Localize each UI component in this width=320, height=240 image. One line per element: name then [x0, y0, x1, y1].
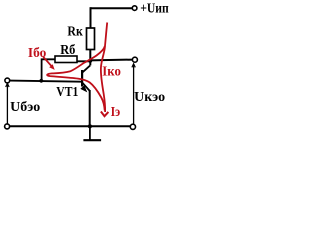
- wire Rb left riser: [42, 59, 55, 81]
- ground bar: [83, 139, 101, 141]
- wire top supply horizontal: [91, 7, 133, 9]
- arrow Ie head red: [101, 112, 109, 117]
- svg-text:Uбэо: Uбэо: [10, 100, 40, 115]
- svg-text:Rк: Rк: [67, 25, 82, 40]
- svg-text:Iбо: Iбо: [28, 46, 46, 61]
- resistor Rk: [87, 28, 95, 50]
- terminal +Uip circle: [132, 6, 137, 11]
- arrow Ubeo voltage: [6, 84, 8, 124]
- wire base from left terminal: [10, 81, 82, 82]
- wire Rb right to collector node: [77, 60, 90, 62]
- wire bottom rail: [10, 125, 130, 127]
- wire Rk bottom to collector: [89, 50, 91, 66]
- svg-text:Uкэо: Uкэо: [134, 90, 165, 105]
- resistor Rb: [55, 56, 77, 63]
- arrow Ibo current red: [43, 57, 51, 66]
- arrow Ukeo voltage: [133, 64, 135, 124]
- terminal collector output circle: [132, 57, 137, 62]
- wire emitter down: [89, 90, 91, 126]
- transistor collector lead: [83, 65, 91, 72]
- node collector junction dot: [88, 59, 92, 63]
- terminal output bottom circle: [130, 124, 135, 129]
- svg-text:Rб: Rб: [60, 43, 75, 58]
- curve Iko current path red: [101, 23, 107, 113]
- svg-text:VT1: VT1: [56, 85, 78, 100]
- svg-text:Iко: Iко: [102, 64, 121, 79]
- terminal input bottom circle: [5, 124, 10, 129]
- ground stem: [89, 127, 91, 140]
- wire top-left corner down to Rk: [90, 7, 92, 28]
- node emitter junction dot: [88, 124, 92, 128]
- wire collector node to right terminal: [90, 59, 133, 62]
- terminal input top circle: [5, 78, 10, 83]
- transistor emitter lead: [83, 83, 90, 91]
- transistor VT1 base bar: [81, 70, 83, 87]
- svg-text:+Uип: +Uип: [140, 2, 169, 17]
- transistor emitter arrowhead: [80, 85, 87, 92]
- svg-text:Iэ: Iэ: [111, 105, 121, 120]
- curve base loop current path red: [47, 46, 105, 111]
- node base junction dot: [39, 79, 43, 83]
